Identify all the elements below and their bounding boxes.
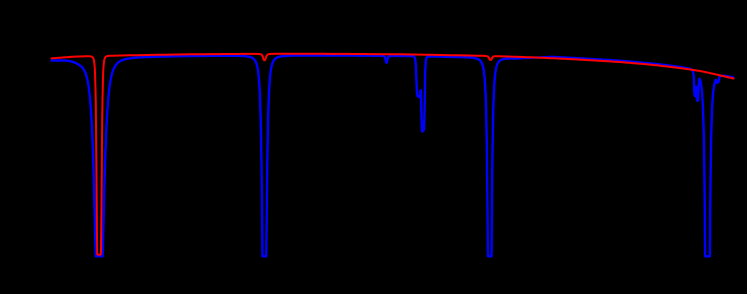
red curve bbox=[52, 54, 734, 255]
blue curve bbox=[52, 56, 734, 257]
